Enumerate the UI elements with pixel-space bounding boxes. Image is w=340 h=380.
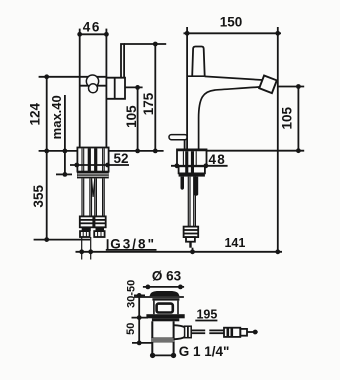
svg-text:355: 355 — [31, 185, 46, 208]
svg-text:52: 52 — [113, 151, 128, 166]
aerator small circle — [89, 84, 98, 93]
rear supply pipe stub below base — [194, 177, 198, 196]
deck reference line (left/middle segment) — [39, 150, 164, 152]
front hose tip — [186, 237, 195, 242]
svg-text:105: 105 — [124, 105, 139, 128]
svg-text:46: 46 — [83, 19, 101, 34]
front view body left edge + 150 extension — [186, 27, 188, 149]
pop-up rod stub below base — [181, 177, 185, 190]
drain neck — [153, 301, 155, 315]
front base lower tier — [179, 166, 205, 173]
front hose tube — [188, 177, 195, 227]
dimension 46 ticks — [79, 29, 81, 35]
lever-top extension line — [124, 43, 166, 45]
svg-text:G3/8": G3/8" — [110, 236, 156, 251]
105 extension (front view) — [278, 86, 304, 88]
supply hoses tubes — [82, 178, 104, 216]
drain cap dome — [150, 292, 179, 296]
drain bottom — [151, 354, 175, 356]
pop-up rod — [184, 140, 186, 150]
spout chord lower — [80, 85, 107, 87]
dimension 141 — [192, 248, 194, 254]
svg-text:max.40: max.40 — [49, 95, 64, 139]
svg-text:150: 150 — [220, 14, 243, 29]
housing divider — [114, 78, 116, 99]
rod joint block — [224, 328, 240, 337]
front hose nut — [184, 227, 199, 238]
dimension 46 arrows — [77, 32, 82, 37]
dimension 46 line — [80, 33, 107, 35]
dimension 124 — [46, 77, 48, 151]
dimension max.40 — [64, 95, 66, 174]
spout top line — [205, 76, 263, 80]
svg-text:175: 175 — [141, 92, 156, 115]
G3/8 thread arrows — [79, 249, 84, 254]
hose V notch — [92, 178, 94, 196]
base hatch thick bars — [88, 148, 91, 171]
hose nut left — [80, 216, 94, 227]
dimension 105 (front view) — [297, 87, 299, 151]
label G3/8" — [107, 239, 109, 249]
105 extension line (left view) — [125, 86, 143, 88]
dimension 48 — [171, 165, 228, 167]
hose collars — [82, 227, 91, 231]
drain thread band — [151, 338, 174, 343]
dimension 150 — [184, 32, 282, 34]
front base escutcheon — [177, 149, 207, 166]
hose nut right — [95, 216, 106, 227]
drain square knob — [157, 304, 173, 313]
dimension 355 — [46, 151, 48, 240]
spout chord upper + 124 extension — [39, 76, 107, 78]
drain flange — [146, 314, 184, 318]
front view body top — [187, 75, 205, 77]
drain body walls — [151, 321, 153, 355]
hose threaded tips — [80, 231, 90, 237]
spout inner curve — [199, 87, 260, 149]
front base hatch — [182, 151, 184, 166]
base hatch thin lines — [82, 148, 104, 171]
lever side view — [121, 44, 124, 78]
spout outlet big circle — [86, 75, 98, 87]
faucet body side view — [79, 34, 81, 147]
svg-text:G 1 1/4": G 1 1/4" — [179, 344, 230, 359]
svg-text:Ø 63: Ø 63 — [152, 268, 182, 283]
pop-up rod horizontal — [191, 329, 205, 331]
front view handle lever — [192, 47, 205, 77]
drain side boss — [174, 325, 185, 327]
dimension 52 — [70, 164, 129, 166]
cap shadow band — [152, 298, 179, 300]
cartridge housing side view — [106, 78, 125, 99]
outlet head (tilted square) — [259, 76, 277, 94]
svg-text:30-50: 30-50 — [126, 280, 138, 308]
svg-text:124: 124 — [28, 102, 43, 125]
G3/8 thread extension lines — [81, 237, 83, 260]
svg-text:105: 105 — [280, 106, 295, 129]
deck reference line (right segment) — [207, 150, 305, 152]
svg-text:48: 48 — [208, 152, 225, 167]
dimension 175 — [154, 44, 156, 151]
base lock nut band — [77, 172, 109, 179]
right extension line (150/141) — [277, 27, 279, 252]
dimension 30-50 — [138, 295, 140, 343]
dimension 105 (left view) — [137, 87, 139, 150]
svg-text:195: 195 — [196, 308, 217, 322]
under-cap line — [134, 296, 184, 298]
pop-up knob — [169, 135, 187, 140]
base escutcheon (side view) — [77, 148, 108, 172]
svg-text:50: 50 — [125, 323, 137, 335]
svg-text:141: 141 — [224, 236, 245, 250]
